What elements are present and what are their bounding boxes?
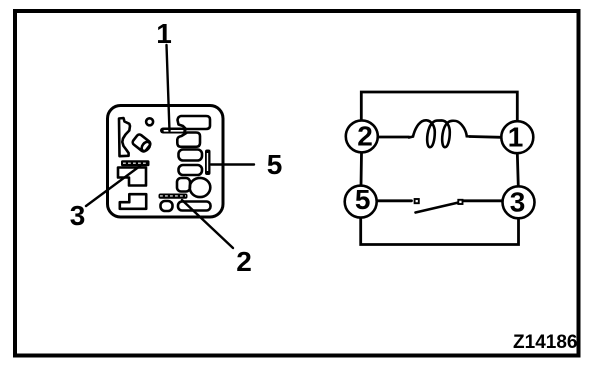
svg-text:1: 1	[156, 18, 172, 49]
svg-text:3: 3	[510, 186, 526, 217]
svg-text:Z14186: Z14186	[513, 332, 577, 353]
svg-text:3: 3	[70, 200, 86, 231]
svg-text:2: 2	[357, 121, 373, 152]
svg-text:5: 5	[267, 149, 283, 180]
svg-text:2: 2	[236, 246, 252, 277]
svg-text:5: 5	[355, 184, 371, 215]
svg-text:1: 1	[508, 121, 524, 152]
